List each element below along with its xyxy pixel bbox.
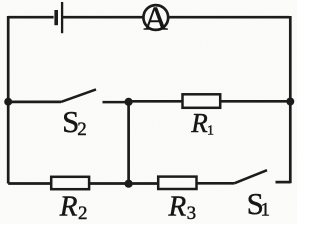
wire resistor R1 to right rail bbox=[220, 100, 290, 103]
svg-text:2: 2 bbox=[78, 203, 88, 224]
battery cell (long thin plate, positive) bbox=[61, 2, 63, 33]
wire resistor R3 to switch S1 pivot bbox=[197, 182, 235, 185]
wire left rail upper (top corner to node) bbox=[7, 16, 10, 102]
node center junction (middle wire / middle vertical) bbox=[125, 98, 133, 106]
svg-text:3: 3 bbox=[187, 203, 197, 224]
wire bottom-left (corner to resistor R2) bbox=[8, 182, 51, 185]
wire ammeter to top-right corner bbox=[169, 16, 289, 19]
svg-text:R: R bbox=[168, 191, 187, 223]
node left-rail junction bbox=[4, 98, 12, 106]
switch S1 (open blade) bbox=[234, 170, 267, 183]
switch S2 (open blade) bbox=[61, 89, 96, 102]
wire left rail lower (node to bottom corner) bbox=[7, 102, 10, 184]
svg-text:1: 1 bbox=[260, 199, 270, 220]
node bottom junction bbox=[125, 180, 133, 188]
svg-text:A: A bbox=[143, 0, 168, 37]
wire top-left segment (battery negative lead) bbox=[8, 16, 53, 19]
wire battery to ammeter bbox=[63, 16, 143, 19]
switch S1 right contact wire bbox=[276, 181, 291, 184]
resistor R1 (box) bbox=[183, 94, 221, 108]
resistor R2 (box) bbox=[51, 177, 89, 189]
svg-text:R: R bbox=[190, 108, 208, 138]
node right-rail junction bbox=[286, 98, 294, 106]
wire resistor R2 to center node bbox=[89, 182, 129, 185]
wire right rail upper (top corner to node) bbox=[289, 16, 292, 102]
svg-text:1: 1 bbox=[207, 124, 214, 139]
ammeter A (circle) bbox=[143, 5, 168, 30]
wire center node to resistor R3 bbox=[129, 182, 159, 185]
svg-text:2: 2 bbox=[77, 119, 87, 140]
wire right rail lower (node to switch S1 contact) bbox=[289, 102, 292, 184]
wire node to resistor R1 bbox=[129, 100, 183, 103]
switch S2 right contact wire bbox=[103, 101, 129, 104]
svg-text:R: R bbox=[59, 190, 78, 222]
resistor R3 (box) bbox=[158, 177, 196, 189]
battery cell (short thick plate, negative) bbox=[54, 10, 58, 25]
wire middle left (node to switch S2 pivot) bbox=[8, 101, 61, 104]
wire middle vertical branch bbox=[127, 102, 130, 184]
